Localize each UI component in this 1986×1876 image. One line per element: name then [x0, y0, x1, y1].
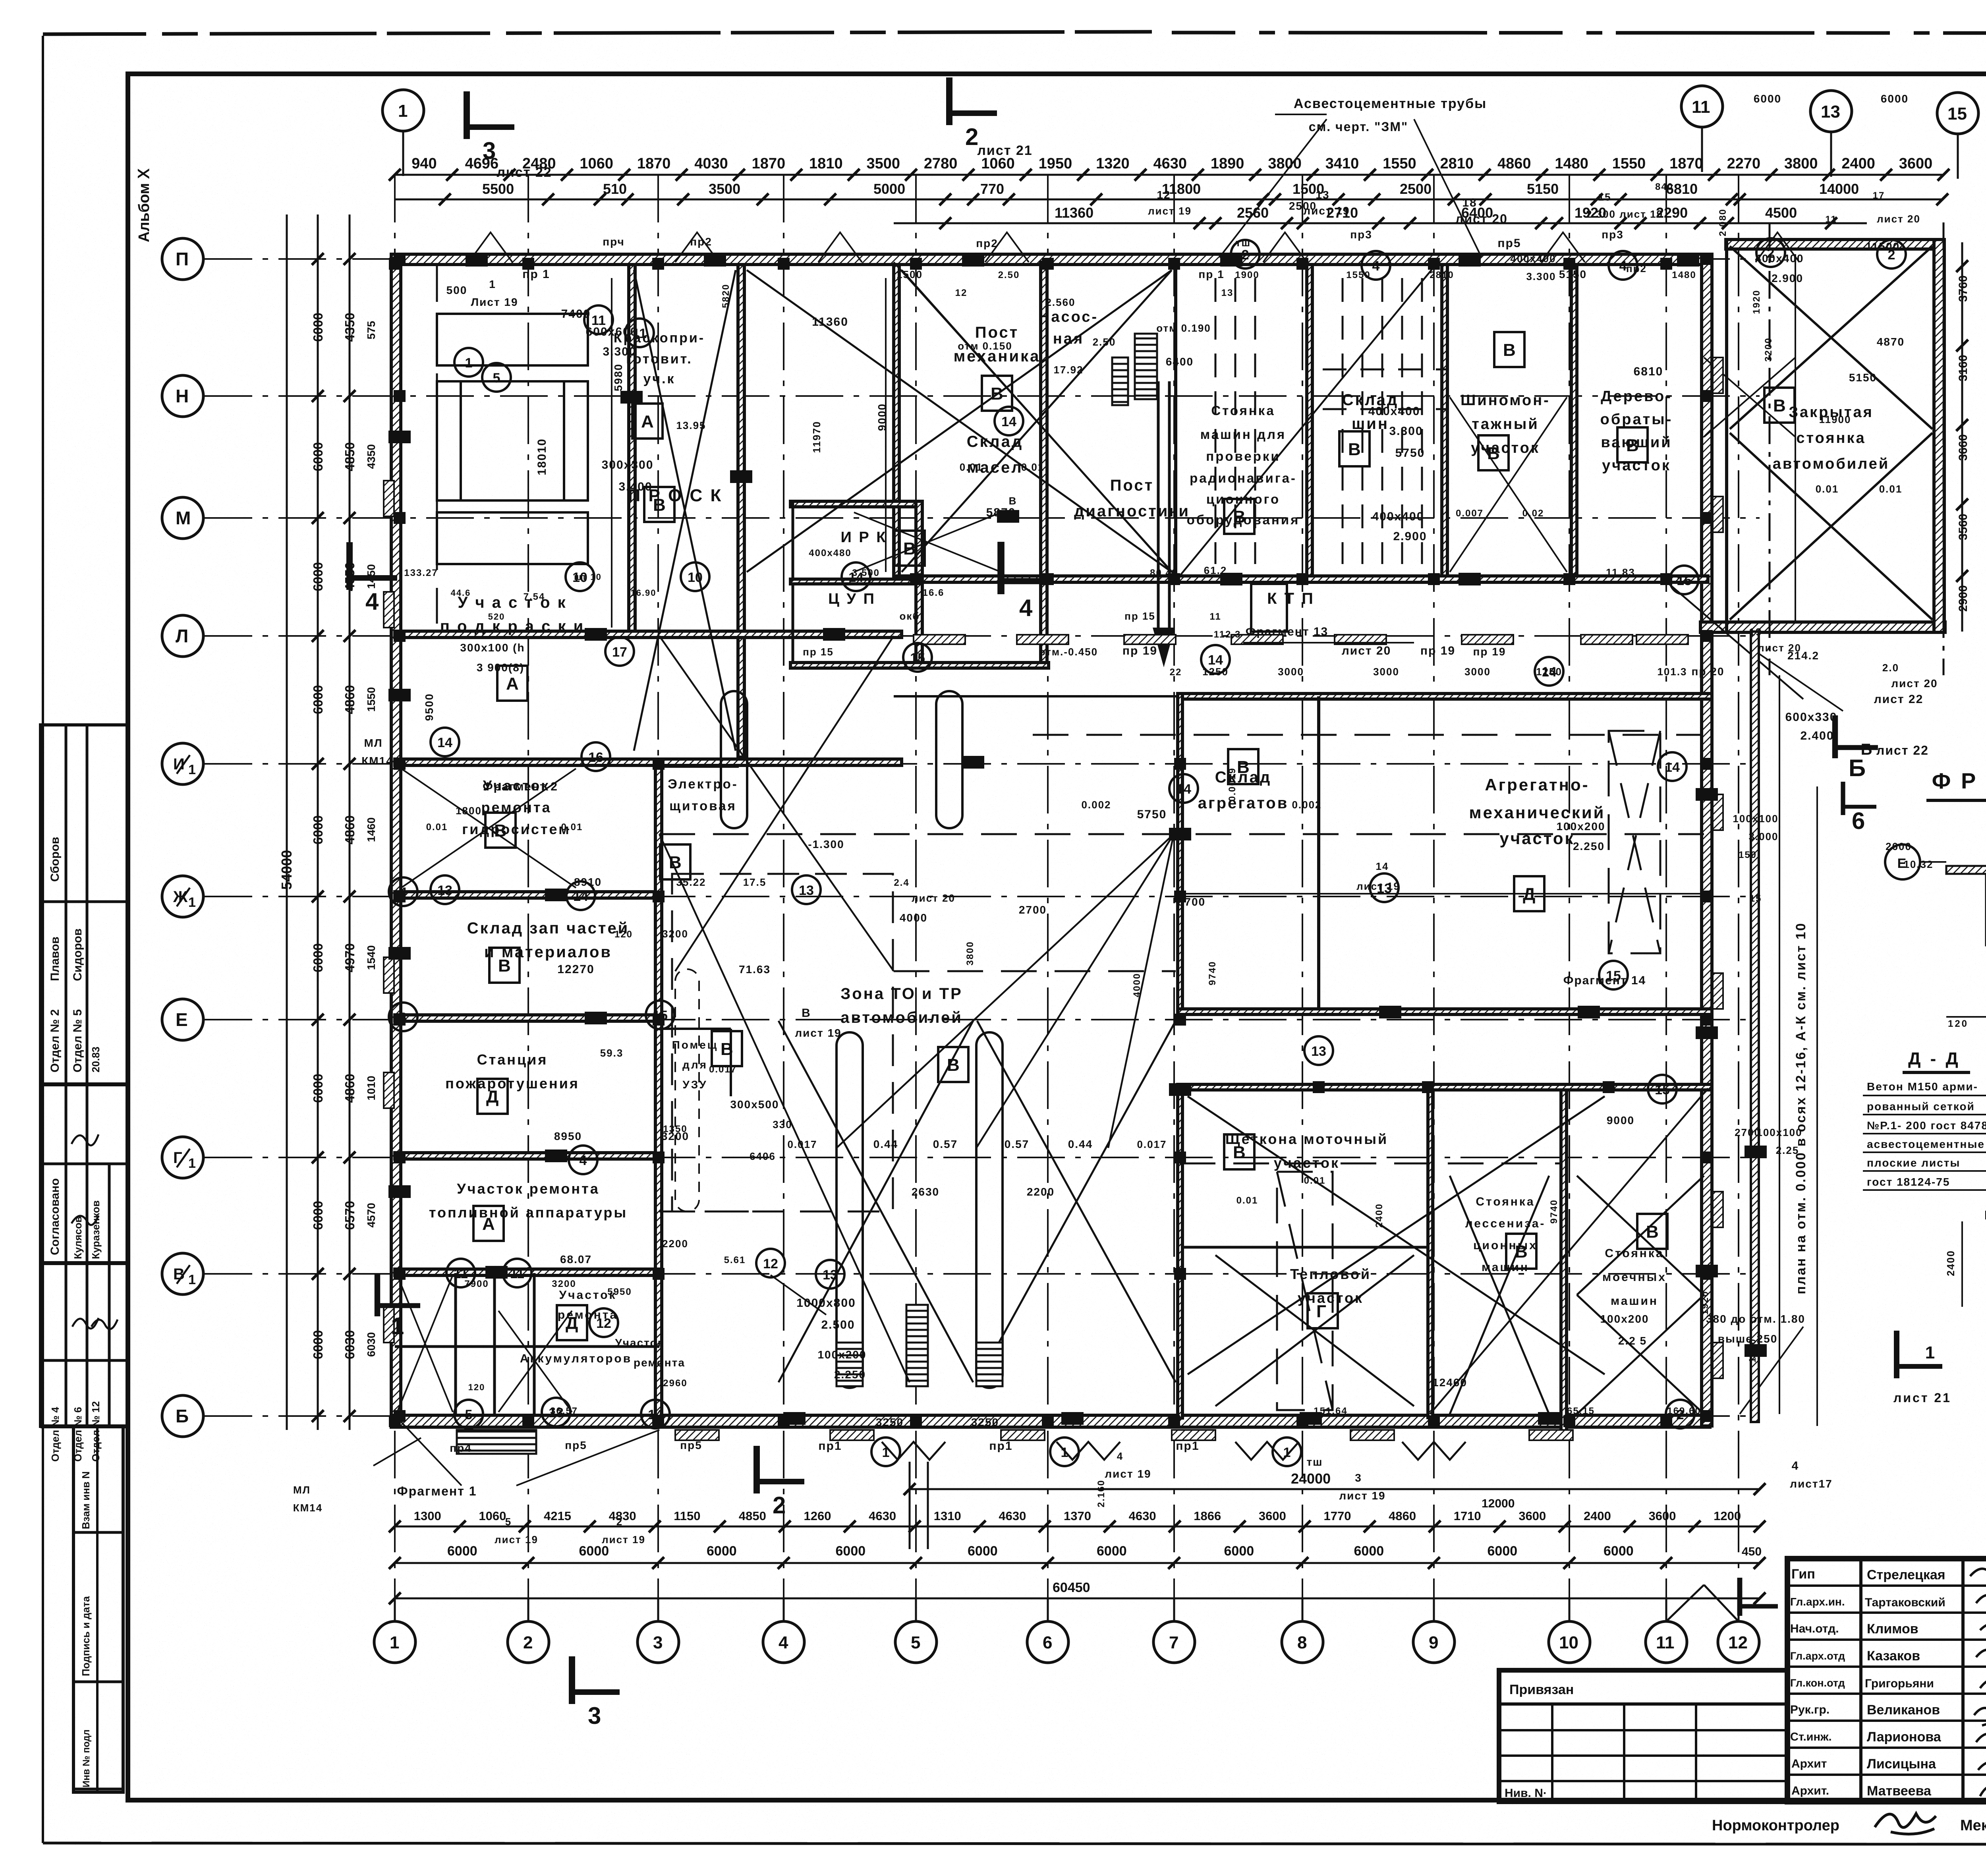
junction circle 13	[542, 1398, 570, 1426]
room class plaque В	[938, 1047, 968, 1082]
column	[522, 1415, 534, 1427]
cross sklad masel	[1450, 397, 1567, 572]
column	[1563, 258, 1575, 270]
stamp strip outline	[41, 725, 128, 1426]
door pad	[1172, 1430, 1215, 1440]
junction circle 17	[605, 637, 634, 666]
section marker 4	[1001, 542, 1053, 621]
wall wall akk v2	[493, 1273, 496, 1415]
axis circle Г/1	[162, 1137, 203, 1178]
column	[652, 1415, 664, 1427]
junction circle 14	[1658, 752, 1687, 781]
signature table rows	[1787, 1586, 1986, 1775]
column	[1701, 758, 1713, 770]
axis circle 8	[1282, 1598, 1323, 1663]
east pad	[1713, 794, 1723, 830]
room label uchastok akk	[558, 1289, 618, 1322]
junction circle 2	[1756, 238, 1785, 267]
room class plaque В	[1506, 1234, 1536, 1269]
wall west exterior	[391, 254, 401, 1426]
room class plaque Д	[1514, 876, 1544, 911]
column	[1174, 1151, 1186, 1163]
axis line И/1	[205, 763, 1760, 765]
room label uchastok podkraski	[440, 594, 585, 635]
column	[522, 258, 534, 270]
LEFT STAMP STRIP	[41, 725, 128, 1792]
column	[1296, 258, 1308, 270]
wall wall agregat bottom	[1178, 1009, 1712, 1014]
signature squiggles	[1970, 1567, 1986, 1796]
axis line П	[205, 258, 1760, 260]
junction circle 2	[1666, 1400, 1694, 1428]
corridor pad	[1231, 635, 1283, 644]
wall wall I1 left block	[395, 759, 902, 765]
wall wall uzu2	[730, 1029, 732, 1096]
room label derevoobr	[1600, 388, 1673, 474]
axis circle И/1	[162, 743, 203, 784]
axis circle Л	[162, 615, 203, 657]
wall wall post-mech west	[894, 265, 899, 582]
column	[1174, 891, 1186, 902]
axis circle 2	[508, 1598, 549, 1663]
wall wall lower west	[1178, 1084, 1182, 1418]
west pad	[384, 957, 394, 993]
junction circle 13	[1370, 873, 1399, 902]
west pad	[384, 592, 394, 628]
room class plaque Г	[1308, 1293, 1338, 1328]
column	[389, 1415, 401, 1427]
column	[1428, 258, 1440, 270]
door pad	[1350, 1430, 1394, 1440]
wall wall masel east	[1041, 262, 1047, 667]
axis line 8	[1302, 175, 1303, 1598]
inner vertical dim chain	[612, 278, 1779, 1414]
wall wall agregat west	[1178, 694, 1182, 1011]
axis circle top 13	[1810, 91, 1852, 177]
room label sklad zap chastej	[467, 920, 630, 961]
junction circle 14	[1535, 657, 1563, 686]
cross stoyanka moechn up	[1577, 1176, 1704, 1295]
axis circle top 15	[1937, 93, 1978, 179]
wall wall irk top	[790, 501, 922, 507]
junction circle 4	[1362, 251, 1390, 280]
room class plaque В	[982, 376, 1012, 411]
column	[1701, 253, 1713, 265]
west pad	[384, 481, 394, 516]
axis circle 10	[1549, 1598, 1590, 1663]
wall wall L left block	[395, 631, 902, 638]
room class plaque А	[497, 666, 527, 701]
wall parking west	[1725, 240, 1728, 632]
room class plaque Д	[477, 1079, 508, 1114]
cross akk room1	[397, 1275, 453, 1412]
axis line М	[205, 517, 1760, 519]
section marker 6	[1843, 782, 1876, 834]
room class plaque В	[660, 844, 690, 879]
axis line 9	[1433, 175, 1435, 1598]
door pad	[1001, 1430, 1045, 1440]
axis circle В/1	[162, 1253, 203, 1294]
column	[1660, 258, 1672, 270]
wall wall derevo west	[1571, 265, 1577, 578]
column	[1042, 573, 1054, 585]
fragment 14 drawing	[1885, 818, 1986, 1062]
column	[1174, 1268, 1186, 1280]
ramp arrow	[1153, 381, 1175, 667]
axis circle Ж/1	[162, 876, 203, 917]
corridor pad	[1124, 635, 1176, 644]
D-D section sketch	[1962, 1211, 1986, 1311]
column	[1428, 573, 1440, 585]
stub 11-12	[1666, 1585, 1739, 1621]
dashed channel	[675, 969, 699, 1211]
axis circle 1	[374, 1598, 415, 1663]
junction circle 4	[389, 877, 417, 906]
wall wall akk v1	[454, 1273, 457, 1415]
top dimension row 1	[395, 174, 1943, 176]
section marker Б	[1835, 715, 1878, 781]
junction circle 2	[1877, 240, 1906, 269]
wall parking top	[1726, 240, 1943, 249]
cross post mechanika	[747, 270, 1172, 572]
inspection channel 2	[976, 1032, 1003, 1388]
outer border left	[42, 36, 44, 1843]
column	[1660, 573, 1672, 585]
junction circle 5	[482, 363, 511, 392]
axis circle П	[162, 238, 203, 280]
section marker 4	[350, 542, 397, 615]
dashed zone boundary	[437, 266, 1704, 1410]
cross teplo	[1215, 1255, 1414, 1406]
wall wall stoyanka div	[1561, 1090, 1567, 1432]
room label stanciya pozharotush	[445, 1051, 580, 1092]
bottom dimension row 24000	[910, 1488, 1760, 1490]
column	[653, 1268, 665, 1280]
column	[394, 630, 406, 642]
axis line Л	[205, 635, 1760, 637]
wall east exterior	[1702, 254, 1712, 1426]
right vertical dims	[1961, 242, 1963, 632]
east pad	[1713, 357, 1723, 393]
column	[394, 390, 406, 402]
wall parking east	[1934, 240, 1944, 632]
wall north exterior	[395, 254, 1710, 265]
top dimension row 2	[395, 199, 1943, 201]
junction circle 11	[584, 305, 613, 334]
painting booths	[437, 314, 588, 564]
room label shinomontazh	[1461, 392, 1550, 456]
column	[910, 258, 922, 270]
east lower exterior wall	[1751, 632, 1759, 1422]
axis line Е	[205, 1019, 1760, 1020]
room class plaque В	[1224, 1134, 1254, 1169]
stairs channel l	[837, 1343, 863, 1386]
callout leaders	[373, 114, 1843, 1486]
junction circle 14	[995, 407, 1023, 435]
axis circle М	[162, 497, 203, 539]
outer border top (broken scan line)	[43, 32, 1152, 34]
room label agregatno mekh	[1469, 775, 1605, 848]
junction circle 1	[454, 348, 483, 377]
junction circle 2	[1231, 240, 1260, 269]
room label akkumulyatorov	[520, 1352, 632, 1365]
wall wall corridor top	[894, 576, 1708, 582]
wall wall Zh1 left	[395, 892, 659, 898]
wall wall agregat top	[1178, 694, 1712, 699]
signature table text	[1790, 1567, 1986, 1799]
zona TO dashed rect	[672, 874, 893, 1211]
cross irk small	[854, 512, 1001, 572]
section marker 2	[757, 1446, 804, 1519]
room label stoyanka moechn	[1602, 1247, 1667, 1308]
wall wall irk west	[792, 501, 794, 667]
axis line 11	[1665, 175, 1667, 1598]
junction circle 14	[842, 562, 870, 591]
stairs bottom left	[457, 1430, 536, 1454]
cross stoyanka lessen	[1450, 1176, 1549, 1414]
axis circle Н	[162, 375, 203, 417]
east pad	[1713, 1343, 1723, 1378]
junction circle 4	[1609, 251, 1637, 280]
cross parking lower	[1730, 433, 1932, 620]
wall wall prosk east	[738, 265, 744, 757]
room label post diagnostiki	[1074, 477, 1190, 520]
room class plaque А	[473, 1206, 504, 1241]
room label post mekhanika	[954, 324, 1041, 365]
column	[1701, 891, 1713, 902]
wall wall shinomontazh west	[1442, 265, 1447, 578]
wall wall left block east	[655, 759, 662, 1416]
axis line 4	[783, 175, 784, 1598]
column	[910, 573, 922, 585]
junction circle 13	[792, 875, 821, 904]
junction circle 1	[871, 1437, 900, 1466]
junction circle 5	[454, 1400, 483, 1428]
junction circle 10	[566, 562, 594, 591]
column	[1701, 1151, 1713, 1163]
rack dashes	[1215, 278, 1446, 564]
junction circle 10	[681, 562, 709, 591]
axis circle top 11	[1681, 86, 1723, 172]
room class plaque В	[712, 1031, 742, 1066]
junction circle 11	[625, 319, 654, 347]
junction circle 11	[503, 1259, 531, 1287]
junction circle 16	[582, 742, 610, 771]
junction circle 15	[903, 643, 932, 672]
room label stoyanka radionav	[1187, 403, 1300, 527]
inspection channel 1	[837, 1032, 863, 1388]
leader fan	[659, 262, 1803, 1414]
sheet 21 marker	[1897, 1331, 1942, 1378]
room class plaque В	[894, 531, 925, 566]
junction circle 3	[389, 1003, 417, 1031]
west pad	[384, 1307, 394, 1343]
room class plaque В	[1494, 332, 1524, 367]
signature table columns	[1859, 1559, 1862, 1802]
wall parking inner frame	[1727, 317, 1934, 318]
junction circle 15	[1599, 961, 1628, 989]
column	[389, 258, 401, 270]
wall wall A2 paint	[629, 265, 635, 636]
rotated stamp texts	[48, 837, 102, 1787]
east pad	[1713, 497, 1723, 532]
wall parking bottom	[1700, 622, 1945, 632]
column	[1296, 573, 1308, 585]
axis line 12	[1738, 175, 1739, 1598]
section marker 3	[572, 1656, 620, 1729]
wall wall agregat top2	[894, 695, 1178, 697]
junction circle 13	[431, 875, 459, 904]
column	[1701, 390, 1713, 402]
wall wall electro	[655, 765, 739, 768]
privyazan box	[1499, 1670, 1787, 1802]
axis line В/1	[205, 1273, 1760, 1275]
title block outline	[1787, 1559, 1986, 1802]
column	[1296, 1415, 1308, 1427]
column	[1701, 1410, 1713, 1422]
corridor pad	[914, 635, 965, 644]
door pad	[1529, 1430, 1573, 1440]
cross prosk corridor	[634, 270, 736, 751]
room label ktp	[1267, 590, 1315, 607]
axis line Б	[205, 1415, 1760, 1417]
column	[1701, 1268, 1713, 1280]
room label kraskoprigotovit	[614, 330, 705, 386]
bottom dimension row 60450	[395, 1598, 1760, 1600]
junction circle 13	[1304, 1036, 1333, 1065]
column	[653, 758, 665, 770]
east pad	[1713, 973, 1723, 1009]
junction circle 4	[569, 1146, 597, 1174]
TITLE BLOCK	[1499, 1559, 1986, 1834]
column	[394, 253, 406, 265]
column	[653, 891, 665, 902]
axis circle 12	[1718, 1598, 1759, 1663]
inspection channel 4	[936, 691, 962, 828]
wall wall E left	[395, 1015, 659, 1021]
axis line Ж/1	[205, 896, 1760, 897]
column	[394, 1014, 406, 1026]
bottom dimension row segments	[395, 1526, 1760, 1528]
room label teplovoj	[1290, 1266, 1371, 1306]
room class plaque В	[1228, 749, 1258, 784]
column	[394, 1410, 406, 1422]
cross stoyanka moechn dn	[1577, 1295, 1704, 1414]
section marker	[1740, 1578, 1778, 1616]
column	[1422, 1081, 1434, 1093]
room class plaque В	[1478, 435, 1509, 470]
corridor pad	[1462, 635, 1513, 644]
stairs diag top	[1135, 334, 1157, 399]
axis circle Б	[162, 1395, 203, 1437]
junction circle 14	[641, 1400, 670, 1428]
wall wall lower top	[1178, 1084, 1712, 1090]
wall wall irk-cup divider	[790, 579, 922, 584]
room label nasosnaya	[1039, 309, 1098, 347]
room class plaque В	[1617, 427, 1648, 462]
column	[394, 512, 406, 524]
junction circle 1	[1273, 1437, 1301, 1466]
door pad	[830, 1430, 874, 1440]
column	[1168, 258, 1180, 270]
ktp equipment	[1251, 584, 1287, 632]
section marker 3	[467, 91, 514, 164]
room class plaque В	[1339, 431, 1370, 466]
cross zona TO 2	[977, 1021, 1176, 1382]
outer border bottom	[43, 1843, 1986, 1845]
wall wall V1 left	[395, 1269, 659, 1275]
column	[1174, 758, 1186, 770]
axis circle 7	[1153, 1598, 1195, 1663]
room label sklad masel	[967, 433, 1023, 476]
stairs parking edge	[1112, 357, 1128, 405]
axis circle 6	[1027, 1598, 1068, 1663]
column	[1701, 1014, 1713, 1026]
wall wall uzu	[659, 1028, 731, 1030]
wall wall akk h	[395, 1345, 659, 1348]
room class plaque В	[1637, 1214, 1667, 1249]
room class plaque В	[1224, 499, 1254, 534]
column	[1042, 258, 1054, 270]
column	[1701, 630, 1713, 642]
room class plaque В	[1764, 388, 1795, 423]
wall wall sklad shin west	[1307, 265, 1312, 578]
junction circle 12	[756, 1249, 785, 1277]
room class plaque В	[644, 487, 674, 522]
column	[394, 1268, 406, 1280]
wall wall cup bottom	[790, 663, 1049, 668]
corridor pad	[1017, 635, 1068, 644]
wall wall radionav west	[1174, 265, 1177, 577]
room label prosk	[628, 486, 723, 505]
column	[910, 1415, 922, 1427]
room label uch remonta toplivnoj	[429, 1180, 628, 1221]
cross radionav	[902, 270, 1172, 572]
stairs channel r	[976, 1343, 1003, 1386]
wall wall akk top	[395, 1269, 659, 1275]
column	[1168, 573, 1180, 585]
wall south exterior	[391, 1415, 1710, 1427]
column	[1701, 512, 1713, 524]
axis line 3	[657, 175, 659, 1598]
top dimension row 3	[894, 222, 1867, 224]
section marker 2	[949, 77, 997, 150]
column	[1042, 1415, 1054, 1427]
room label uch remonta gidro	[462, 777, 570, 837]
left dimension lines	[286, 214, 288, 1430]
wall wall akk v3	[533, 1273, 536, 1415]
junction circle 14	[566, 881, 595, 910]
column	[1174, 1014, 1186, 1026]
junction circle 15	[1670, 566, 1698, 594]
wall wall irk east	[916, 501, 922, 667]
room label pomeshch uzu	[672, 1039, 719, 1091]
column	[394, 1151, 406, 1163]
cross zona TO 1	[779, 1021, 973, 1382]
axis line 2	[527, 175, 529, 1598]
cross shchetkona	[1188, 1096, 1605, 1374]
room label irk	[841, 529, 887, 546]
axis circle 9	[1413, 1598, 1455, 1663]
stairs zona TO	[906, 1305, 928, 1386]
wall wall agregat divider	[1317, 696, 1320, 1012]
cross akk room2	[498, 1311, 572, 1412]
bottom dimension row 6000	[395, 1562, 1760, 1564]
axis line 6	[1047, 175, 1049, 1598]
corridor pad	[1636, 635, 1688, 644]
room class plaque В	[489, 948, 520, 983]
axis line 10	[1569, 175, 1570, 1598]
